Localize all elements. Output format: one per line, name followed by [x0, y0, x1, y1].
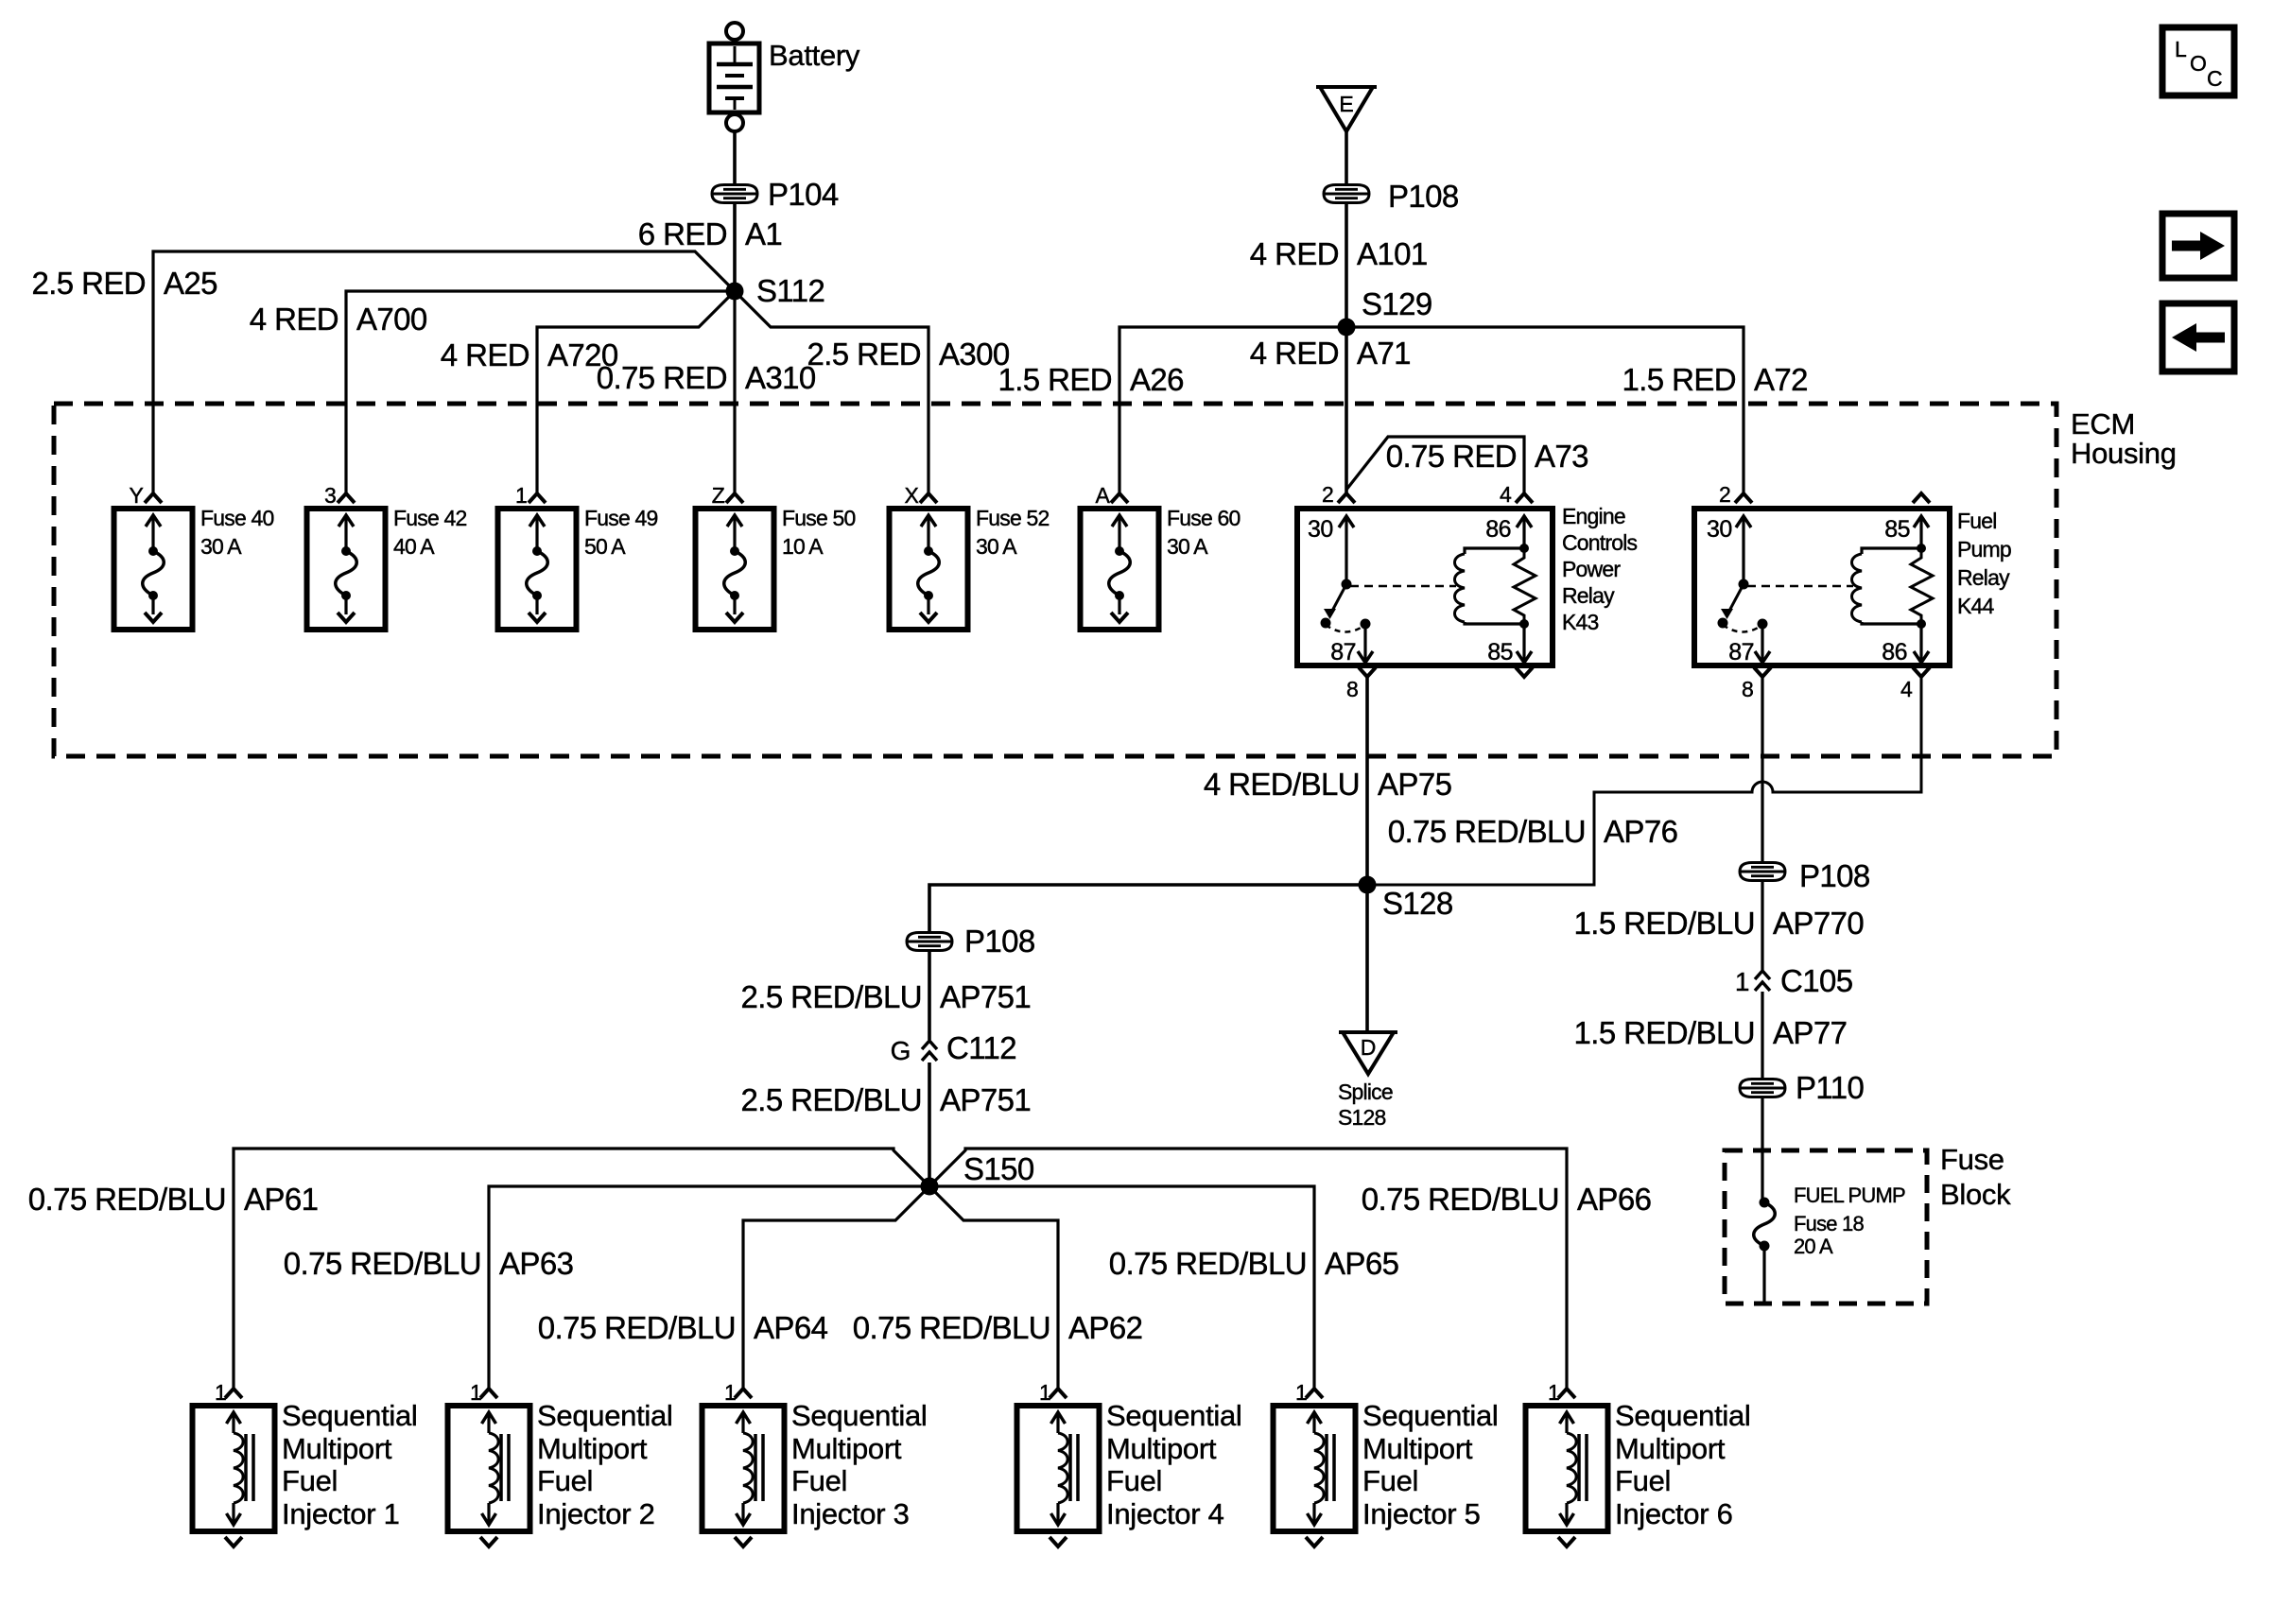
svg-text:2.5 RED/BLU: 2.5 RED/BLU	[741, 979, 922, 1014]
svg-text:ECM: ECM	[2071, 407, 2135, 441]
wire AP62	[929, 1186, 1058, 1388]
svg-text:X: X	[904, 483, 918, 508]
right arrow icon	[2162, 214, 2234, 278]
svg-text:1.5 RED/BLU: 1.5 RED/BLU	[1574, 906, 1755, 941]
pin 2 of K43	[1322, 482, 1355, 507]
injector 1 label	[282, 1399, 418, 1530]
wire label 1.5 RED A72	[1622, 362, 1807, 397]
svg-text:30 A: 30 A	[200, 534, 242, 559]
svg-text:4 RED: 4 RED	[441, 337, 529, 372]
wire P110 to fuse block	[1761, 1097, 1763, 1202]
svg-text:AP75: AP75	[1378, 767, 1451, 802]
svg-text:Injector 2: Injector 2	[537, 1497, 655, 1530]
Fuse 50 label	[782, 506, 856, 559]
svg-text:Sequential: Sequential	[1615, 1399, 1751, 1432]
svg-text:4: 4	[1900, 677, 1913, 701]
svg-text:Fuel: Fuel	[1957, 509, 1997, 533]
wire AP61	[234, 1149, 929, 1388]
Fuse 60 label	[1167, 506, 1241, 559]
svg-text:8: 8	[1742, 677, 1753, 701]
connector C105	[1735, 963, 1853, 998]
svg-text:P108: P108	[1799, 858, 1870, 893]
svg-text:30 A: 30 A	[976, 534, 1017, 559]
wire label 4 RED A700	[250, 302, 427, 337]
svg-text:Splice: Splice	[1338, 1080, 1393, 1104]
wire AP75	[1365, 677, 1369, 885]
fuse block boundary	[1725, 1150, 1927, 1304]
svg-text:Injector 4: Injector 4	[1106, 1497, 1224, 1530]
svg-text:A73: A73	[1535, 439, 1588, 474]
svg-text:Sequential: Sequential	[537, 1399, 673, 1432]
wire label 1.5 RED A26	[998, 362, 1183, 397]
battery label	[769, 39, 860, 72]
wire label 2.5 RED A25	[31, 266, 217, 301]
svg-text:Injector 6: Injector 6	[1615, 1497, 1733, 1530]
svg-text:Fuel: Fuel	[791, 1464, 847, 1497]
svg-text:1.5 RED/BLU: 1.5 RED/BLU	[1574, 1015, 1755, 1050]
ECM housing boundary	[54, 404, 2056, 756]
wire K44 pin 8 to P108	[1761, 677, 1763, 863]
splice D triangle	[1339, 1032, 1397, 1074]
svg-text:4 RED: 4 RED	[1250, 236, 1339, 271]
svg-text:AP62: AP62	[1068, 1310, 1142, 1345]
fuse 18 label	[1794, 1183, 1905, 1258]
pin 85 of K44	[1884, 516, 1910, 543]
pin 1 of injector 6	[1548, 1380, 1559, 1405]
svg-text:Fuse 42: Fuse 42	[393, 506, 467, 530]
svg-text:P104: P104	[768, 177, 839, 212]
fuse 18 (FUEL PUMP Fuse 18 20 A)	[1754, 1198, 1776, 1303]
pin 85 terminal top of K44	[1913, 493, 1930, 503]
svg-text:3: 3	[324, 483, 336, 508]
fuel injector 5	[1274, 1389, 1356, 1546]
wire battery to P104	[733, 131, 737, 185]
wire label 0.75 RED/BLU AP65	[1109, 1246, 1399, 1281]
fuse 49 (Fuse 49 50 A)	[498, 493, 577, 630]
wire AP64	[743, 1186, 929, 1388]
relay K44 label	[1957, 509, 2011, 618]
wire AP751 lower	[928, 1063, 931, 1186]
wire A73 jumper	[1346, 437, 1524, 492]
svg-text:AP76: AP76	[1604, 814, 1677, 849]
fuel injector 2	[448, 1389, 530, 1546]
svg-text:FUEL PUMP: FUEL PUMP	[1794, 1183, 1905, 1207]
svg-text:AP751: AP751	[940, 1082, 1031, 1117]
svg-text:0.75 RED/BLU: 0.75 RED/BLU	[284, 1246, 481, 1281]
svg-text:87: 87	[1330, 639, 1356, 665]
svg-text:AP770: AP770	[1773, 906, 1864, 941]
svg-text:Pump: Pump	[1957, 537, 2011, 561]
wire label 0.75 RED A310	[597, 360, 816, 395]
wire AP770	[1761, 880, 1763, 970]
pin 86 of K43	[1485, 516, 1511, 543]
wire AP76	[1367, 677, 1921, 885]
svg-text:50 A: 50 A	[584, 534, 626, 559]
pin 87 of K43	[1330, 639, 1356, 665]
wire A26	[1119, 327, 1346, 492]
fuel injector 1	[193, 1389, 275, 1546]
fuse block label	[1940, 1143, 2011, 1211]
wire A300	[735, 291, 928, 492]
svg-text:86: 86	[1485, 516, 1511, 543]
wire label 4 RED A101	[1250, 236, 1428, 271]
pin X of Fuse 52	[904, 483, 918, 508]
wire label 4 RED A720	[441, 337, 618, 372]
Fuse 52 label	[976, 506, 1050, 559]
relay K43 (Engine Controls Power Relay)	[1297, 509, 1553, 665]
svg-text:Fuse 52: Fuse 52	[976, 506, 1050, 530]
svg-text:C105: C105	[1780, 963, 1853, 998]
svg-text:4: 4	[1500, 482, 1512, 507]
pin 30 of K44	[1707, 516, 1732, 543]
svg-text:D: D	[1361, 1035, 1377, 1060]
svg-text:Controls: Controls	[1562, 530, 1638, 555]
svg-text:30 A: 30 A	[1167, 534, 1208, 559]
fuel injector 6	[1526, 1389, 1608, 1546]
Fuse 49 label	[584, 506, 658, 559]
wire S128 to D	[1365, 885, 1369, 1032]
svg-text:A71: A71	[1357, 336, 1411, 371]
svg-text:Multiport: Multiport	[537, 1432, 648, 1465]
pin 1 of Fuse 49	[515, 483, 527, 508]
wire label 0.75 RED/BLU AP76	[1388, 814, 1678, 849]
svg-text:Battery: Battery	[769, 39, 860, 72]
connector P108 mid	[907, 924, 1035, 959]
wire label 2.5 RED/BLU AP751 lower	[741, 1082, 1032, 1117]
svg-text:K44: K44	[1957, 594, 1995, 618]
svg-text:Y: Y	[129, 483, 143, 508]
fuse 50 (Fuse 50 10 A)	[696, 493, 774, 630]
splice D label	[1338, 1080, 1393, 1130]
wire label 6 RED A1	[638, 216, 782, 251]
wire label 0.75 RED A73	[1386, 439, 1588, 474]
wire label 0.75 RED/BLU AP66	[1362, 1182, 1652, 1217]
connector P108 top	[1324, 179, 1459, 214]
svg-text:Fuse 18: Fuse 18	[1794, 1212, 1864, 1235]
pin 1 of injector 4	[1039, 1380, 1050, 1405]
svg-text:86: 86	[1882, 639, 1907, 665]
fuse 42 (Fuse 42 40 A)	[307, 493, 386, 630]
wire label 0.75 RED/BLU AP62	[853, 1310, 1143, 1345]
svg-text:85: 85	[1487, 639, 1513, 665]
svg-text:Engine: Engine	[1562, 504, 1625, 528]
wire label 0.75 RED/BLU AP64	[538, 1310, 828, 1345]
svg-text:AP64: AP64	[754, 1310, 828, 1345]
svg-text:S128: S128	[1338, 1105, 1386, 1130]
pin 8 of K44	[1742, 667, 1771, 701]
fuel injector 4	[1017, 1389, 1100, 1546]
svg-text:Injector 3: Injector 3	[791, 1497, 910, 1530]
connector P104	[712, 177, 839, 212]
splice S129	[1338, 286, 1432, 337]
wire A25	[153, 251, 735, 492]
pin 4 of K44	[1900, 667, 1930, 701]
wire S128 to P108	[929, 885, 1367, 933]
svg-text:Fuel: Fuel	[1362, 1464, 1418, 1497]
svg-text:30: 30	[1308, 516, 1333, 543]
svg-text:1: 1	[470, 1380, 481, 1405]
LOC icon	[2162, 27, 2234, 95]
injector 6 label	[1615, 1399, 1751, 1530]
wire AP66	[929, 1149, 1567, 1388]
svg-text:A26: A26	[1130, 362, 1184, 397]
pin A of Fuse 60	[1095, 483, 1110, 508]
svg-text:Multiport: Multiport	[1615, 1432, 1726, 1465]
wire AP65	[929, 1186, 1314, 1388]
svg-text:P110: P110	[1796, 1070, 1864, 1105]
svg-text:87: 87	[1728, 639, 1754, 665]
wire A101	[1345, 202, 1348, 327]
wire label 2.5 RED A300	[807, 337, 1009, 371]
wire AP751 upper	[928, 950, 931, 1040]
fuse 40 (Fuse 40 30 A)	[114, 493, 193, 630]
wire AP63	[489, 1186, 929, 1388]
wire A71 to relay K43	[1345, 327, 1348, 492]
svg-text:AP77: AP77	[1773, 1015, 1847, 1050]
svg-text:S129: S129	[1362, 286, 1432, 321]
svg-text:1: 1	[1295, 1380, 1307, 1405]
svg-text:10 A: 10 A	[782, 534, 824, 559]
svg-text:0.75 RED/BLU: 0.75 RED/BLU	[1109, 1246, 1307, 1281]
svg-text:P108: P108	[1388, 179, 1459, 214]
injector 3 label	[791, 1399, 928, 1530]
svg-text:1.5 RED: 1.5 RED	[998, 362, 1112, 397]
Fuse 42 label	[393, 506, 467, 559]
pin 1 of injector 2	[470, 1380, 481, 1405]
svg-text:Fuel: Fuel	[1615, 1464, 1671, 1497]
svg-text:1: 1	[515, 483, 527, 508]
svg-text:A700: A700	[356, 302, 427, 337]
svg-text:0.75 RED/BLU: 0.75 RED/BLU	[538, 1310, 736, 1345]
svg-text:0.75 RED: 0.75 RED	[597, 360, 727, 395]
fuel injector 3	[703, 1389, 785, 1546]
svg-text:AP66: AP66	[1577, 1182, 1651, 1217]
splice S150	[921, 1151, 1034, 1196]
svg-text:Fuse 50: Fuse 50	[782, 506, 856, 530]
Fuse 40 label	[200, 506, 274, 559]
svg-text:L: L	[2175, 37, 2187, 61]
pin 4 of K43	[1500, 482, 1533, 507]
svg-text:AP61: AP61	[244, 1182, 318, 1217]
svg-text:1: 1	[215, 1380, 226, 1405]
connector P110	[1740, 1070, 1864, 1105]
svg-text:6 RED: 6 RED	[638, 216, 727, 251]
svg-text:Fuel: Fuel	[1106, 1464, 1162, 1497]
svg-text:C112: C112	[946, 1030, 1016, 1065]
svg-text:AP65: AP65	[1325, 1246, 1398, 1281]
svg-text:8: 8	[1346, 677, 1358, 701]
svg-text:Fuse 40: Fuse 40	[200, 506, 274, 530]
pin 85 of K43	[1487, 639, 1513, 665]
svg-text:AP751: AP751	[940, 979, 1031, 1014]
svg-text:4 RED: 4 RED	[250, 302, 338, 337]
svg-text:A72: A72	[1754, 362, 1808, 397]
svg-text:Fuse 60: Fuse 60	[1167, 506, 1241, 530]
svg-text:2.5 RED: 2.5 RED	[807, 337, 921, 371]
wire A700	[346, 291, 735, 492]
connector P108 right	[1740, 858, 1870, 893]
svg-text:Multiport: Multiport	[1362, 1432, 1473, 1465]
svg-text:G: G	[891, 1036, 911, 1065]
svg-text:4 RED/BLU: 4 RED/BLU	[1204, 767, 1360, 802]
svg-text:1: 1	[1735, 967, 1749, 996]
svg-text:85: 85	[1884, 516, 1910, 543]
svg-text:Sequential: Sequential	[1106, 1399, 1242, 1432]
svg-text:Sequential: Sequential	[1362, 1399, 1499, 1432]
svg-text:A25: A25	[164, 266, 217, 301]
svg-text:1: 1	[1548, 1380, 1559, 1405]
svg-text:P108: P108	[964, 924, 1035, 959]
wire label 0.75 RED/BLU AP61	[28, 1182, 319, 1217]
svg-text:1.5 RED: 1.5 RED	[1622, 362, 1736, 397]
pin 1 of injector 1	[215, 1380, 226, 1405]
wire label 1.5 RED/BLU AP77	[1574, 1015, 1848, 1050]
svg-text:40 A: 40 A	[393, 534, 435, 559]
svg-text:2.5 RED/BLU: 2.5 RED/BLU	[741, 1082, 922, 1117]
wire label 1.5 RED/BLU AP770	[1574, 906, 1865, 941]
svg-text:Housing: Housing	[2071, 437, 2177, 470]
svg-text:Sequential: Sequential	[791, 1399, 928, 1432]
svg-text:4 RED: 4 RED	[1250, 336, 1339, 371]
wire AP77	[1761, 992, 1763, 1080]
svg-text:2: 2	[1322, 482, 1333, 507]
pin 2 of K44	[1719, 482, 1752, 507]
svg-text:1: 1	[724, 1380, 736, 1405]
connector C112	[891, 1030, 1016, 1065]
left arrow icon	[2162, 303, 2234, 371]
pin 85 terminal of K43	[1516, 667, 1533, 677]
svg-text:A310: A310	[745, 360, 816, 395]
ECM housing label	[2071, 407, 2177, 470]
svg-text:Multiport: Multiport	[282, 1432, 392, 1465]
svg-text:20 A: 20 A	[1794, 1235, 1833, 1258]
wire label 2.5 RED/BLU AP751 upper	[741, 979, 1032, 1014]
wire label 4 RED A71	[1250, 336, 1411, 371]
svg-text:E: E	[1339, 92, 1353, 116]
svg-text:0.75 RED/BLU: 0.75 RED/BLU	[1388, 814, 1586, 849]
power feed E triangle	[1316, 87, 1377, 131]
wire A720	[537, 291, 735, 492]
svg-text:A1: A1	[745, 216, 782, 251]
pin 86 of K44	[1882, 639, 1907, 665]
pin 1 of injector 3	[724, 1380, 736, 1405]
svg-text:Fuel: Fuel	[282, 1464, 338, 1497]
pin Y of Fuse 40	[129, 483, 143, 508]
svg-text:0.75 RED: 0.75 RED	[1386, 439, 1517, 474]
pin 1 of injector 5	[1295, 1380, 1307, 1405]
svg-text:A: A	[1095, 483, 1110, 508]
fuse 60 (Fuse 60 30 A)	[1081, 493, 1159, 630]
svg-text:Relay: Relay	[1957, 565, 2010, 590]
svg-text:Relay: Relay	[1562, 583, 1615, 608]
svg-text:2: 2	[1719, 482, 1730, 507]
svg-text:0.75 RED/BLU: 0.75 RED/BLU	[853, 1310, 1050, 1345]
pin 30 of K43	[1308, 516, 1333, 543]
svg-text:S128: S128	[1382, 886, 1453, 921]
wire A310	[733, 291, 736, 492]
svg-text:S150: S150	[963, 1151, 1034, 1186]
svg-text:Z: Z	[712, 483, 725, 508]
svg-text:Multiport: Multiport	[791, 1432, 902, 1465]
svg-text:Injector 5: Injector 5	[1362, 1497, 1481, 1530]
fuse 52 (Fuse 52 30 A)	[890, 493, 968, 630]
battery	[709, 23, 759, 131]
pin Z of Fuse 50	[712, 483, 725, 508]
pin 8 of K43	[1346, 667, 1376, 701]
pin 3 of Fuse 42	[324, 483, 336, 508]
injector 5 label	[1362, 1399, 1499, 1530]
splice S128	[1359, 876, 1453, 922]
svg-text:Sequential: Sequential	[282, 1399, 418, 1432]
relay K44 (Fuel Pump Relay)	[1694, 509, 1950, 665]
svg-text:AP63: AP63	[499, 1246, 573, 1281]
wire label 4 RED/BLU AP75	[1204, 767, 1452, 802]
wire E to P108	[1345, 131, 1348, 185]
svg-text:O: O	[2190, 51, 2206, 76]
svg-text:Fuse 49: Fuse 49	[584, 506, 658, 530]
svg-text:Fuel: Fuel	[537, 1464, 593, 1497]
pin 87 of K44	[1728, 639, 1754, 665]
svg-text:1: 1	[1039, 1380, 1050, 1405]
svg-text:Injector 1: Injector 1	[282, 1497, 400, 1530]
wire A1 P104 to S112	[733, 202, 737, 291]
svg-text:2.5 RED: 2.5 RED	[31, 266, 146, 301]
splice S112	[726, 273, 825, 308]
relay K43 label	[1562, 504, 1638, 634]
svg-text:0.75 RED/BLU: 0.75 RED/BLU	[28, 1182, 226, 1217]
wire label 0.75 RED/BLU AP63	[284, 1246, 574, 1281]
svg-text:Fuse: Fuse	[1940, 1143, 2004, 1176]
svg-text:Multiport: Multiport	[1106, 1432, 1217, 1465]
svg-text:S112: S112	[756, 273, 824, 308]
svg-text:0.75 RED/BLU: 0.75 RED/BLU	[1362, 1182, 1559, 1217]
svg-text:K43: K43	[1562, 610, 1599, 634]
injector 2 label	[537, 1399, 673, 1530]
svg-text:30: 30	[1707, 516, 1732, 543]
svg-text:C: C	[2207, 66, 2222, 91]
wire A72	[1346, 327, 1744, 492]
svg-text:Block: Block	[1940, 1178, 2011, 1211]
svg-text:Power: Power	[1562, 557, 1621, 581]
injector 4 label	[1106, 1399, 1242, 1530]
svg-text:A101: A101	[1357, 236, 1428, 271]
